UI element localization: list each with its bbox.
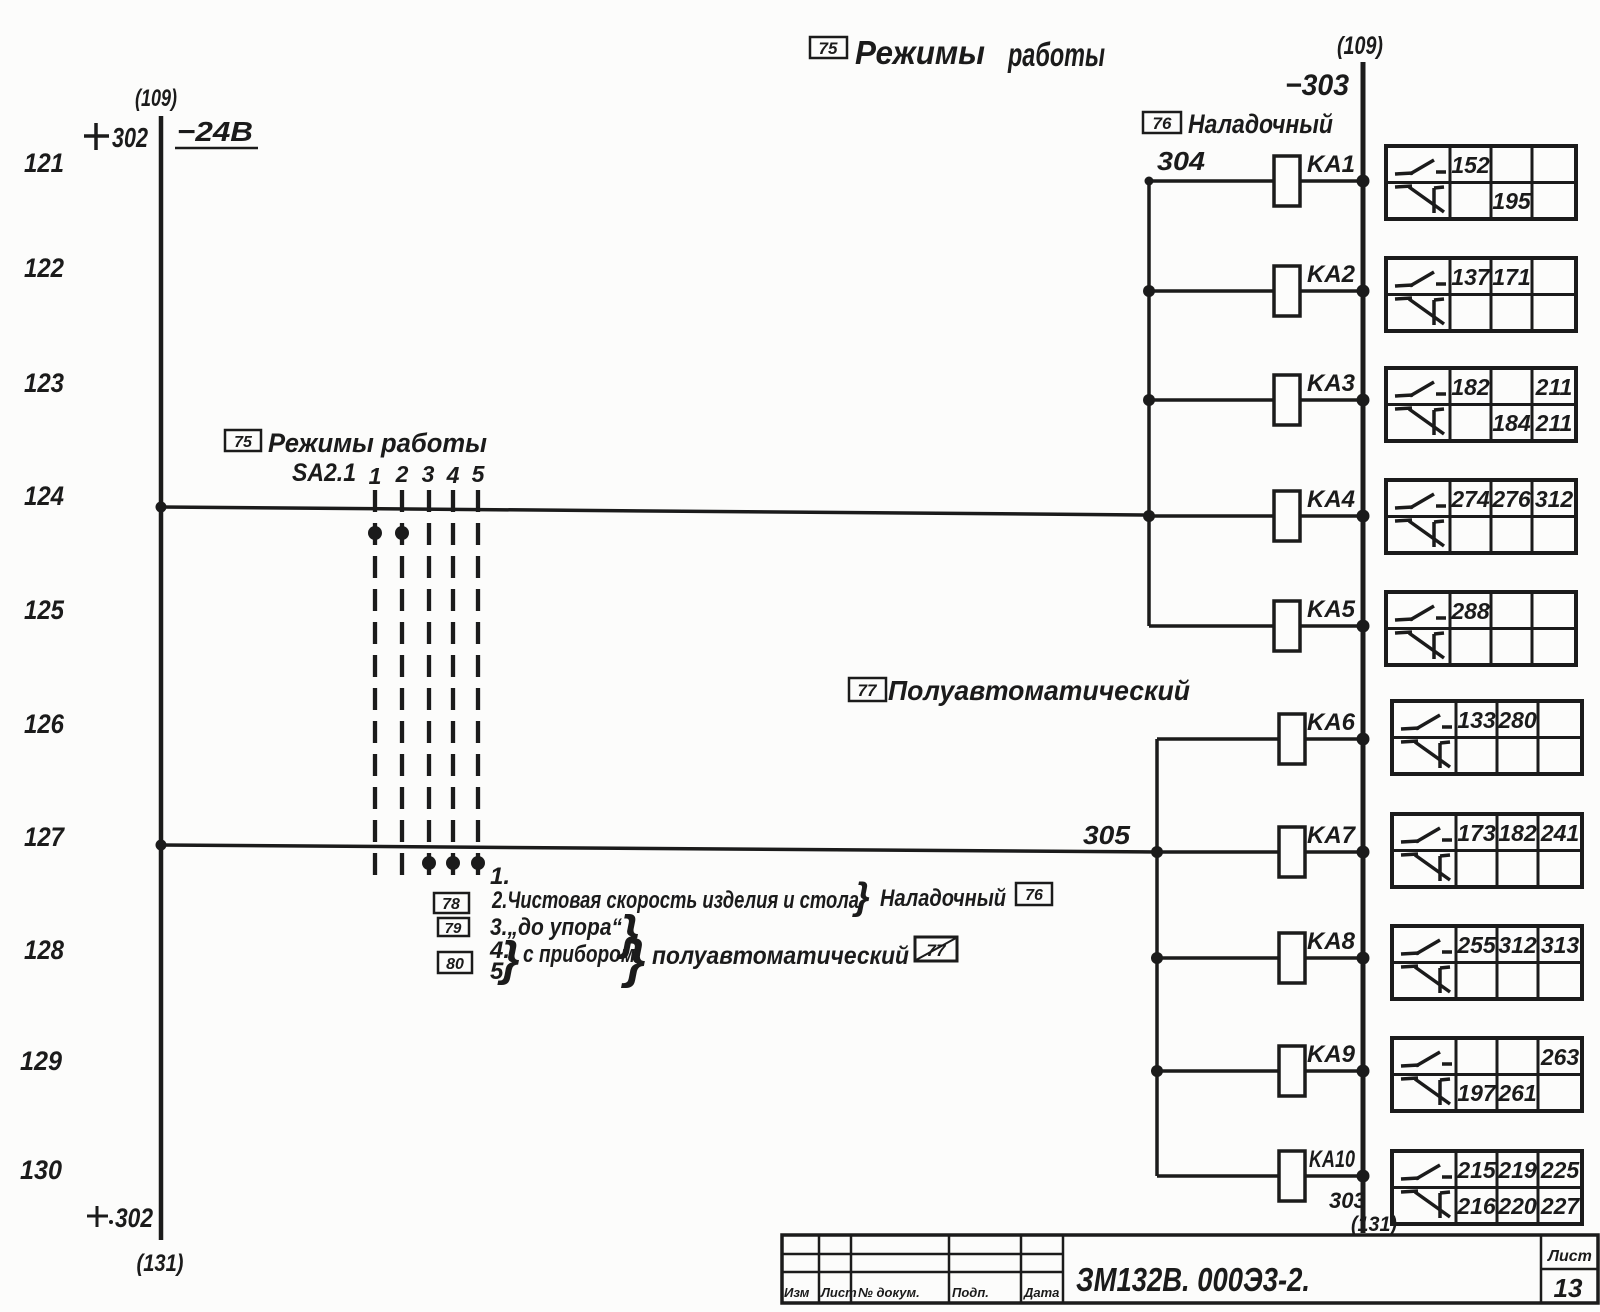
- svg-text:312: 312: [1535, 486, 1574, 512]
- svg-text:(131): (131): [137, 1250, 184, 1277]
- svg-text:303: 303: [1329, 1188, 1366, 1213]
- svg-text:76: 76: [1025, 887, 1043, 904]
- svg-text:215: 215: [1456, 1157, 1497, 1183]
- svg-text:Подп.: Подп.: [952, 1285, 989, 1300]
- svg-text:211: 211: [1535, 410, 1573, 436]
- svg-text:304: 304: [1157, 146, 1206, 176]
- underline of -24V: [175, 147, 258, 150]
- wire left bus +302: [159, 116, 164, 1240]
- contact table KA1: [1386, 146, 1576, 219]
- svg-text:263: 263: [1540, 1044, 1580, 1070]
- relay coil KA3: [1149, 370, 1363, 425]
- title row labels: [784, 1285, 1059, 1300]
- contact dot pole5: [471, 856, 485, 870]
- svg-text:KA10: KA10: [1309, 1146, 1355, 1173]
- svg-text:78: 78: [442, 896, 460, 913]
- label box 77 Poluavtomaticheskiy: [849, 675, 1190, 706]
- svg-text:KA8: KA8: [1307, 928, 1356, 955]
- svg-text:276: 276: [1491, 486, 1531, 512]
- switch pole 3 dashed: [427, 490, 431, 882]
- LEGEND: [434, 863, 1052, 989]
- svg-text:255: 255: [1456, 932, 1497, 958]
- svg-text:129: 129: [20, 1046, 62, 1076]
- relay coil KA9: [1157, 1041, 1363, 1096]
- label box 80: [438, 952, 472, 973]
- svg-text:KA3: KA3: [1307, 370, 1356, 397]
- junction branch upper y400: [1143, 394, 1155, 406]
- node +302 bottom: [87, 1215, 108, 1218]
- junction right bus KA9: [1357, 1065, 1370, 1078]
- svg-text:Наладочный: Наладочный: [1188, 109, 1333, 139]
- junction right bus KA1: [1357, 175, 1370, 188]
- contact table KA6: [1392, 701, 1582, 774]
- relay coil KA2: [1149, 261, 1363, 316]
- switch pole 5 dashed: [476, 490, 480, 882]
- svg-text:216: 216: [1456, 1193, 1496, 1219]
- junction right bus KA3: [1357, 394, 1370, 407]
- junction right bus KA2: [1357, 285, 1370, 298]
- junction branch lower y852: [1151, 846, 1163, 858]
- junction right bus KA10: [1357, 1170, 1370, 1183]
- contact table KA7: [1392, 814, 1582, 887]
- svg-text:305: 305: [1083, 820, 1131, 850]
- junction branch upper y516: [1143, 510, 1155, 522]
- svg-text:полуавтоматический: полуавтоматический: [652, 942, 909, 970]
- contact table KA10: [1392, 1151, 1582, 1224]
- label box 75 mid: [225, 430, 261, 451]
- contact dot pole4: [446, 856, 460, 870]
- contact table KA2: [1386, 258, 1576, 331]
- svg-text:№ докум.: № докум.: [858, 1285, 920, 1300]
- wire line124: [161, 507, 1149, 515]
- svg-text:13: 13: [1554, 1273, 1583, 1303]
- svg-text:1.: 1.: [490, 863, 510, 890]
- switch pole 1 dashed: [373, 490, 377, 877]
- title block frame: [782, 1235, 1598, 1303]
- junction right bus KA4: [1357, 510, 1370, 523]
- switch pole 4 dashed: [451, 490, 455, 882]
- TITLE BLOCK: [782, 1235, 1598, 1303]
- label box 76 Naladochny: [1143, 109, 1333, 139]
- svg-text:KA9: KA9: [1307, 1041, 1356, 1068]
- junction branch lower y1071: [1151, 1065, 1163, 1077]
- label box 75 top: [810, 37, 847, 58]
- relay coil KA8: [1157, 928, 1363, 983]
- svg-text:Изм: Изм: [784, 1285, 810, 1300]
- svg-text:работы: работы: [1007, 36, 1105, 73]
- svg-text:−24В: −24В: [177, 116, 253, 147]
- RELAY COLUMN inserted by script: [1143, 146, 1582, 1224]
- svg-text:227: 227: [1540, 1193, 1581, 1219]
- svg-text:77: 77: [927, 941, 947, 960]
- svg-text:125: 125: [24, 595, 65, 625]
- LEFT BUS GROUP: [84, 85, 258, 1277]
- svg-text:с прибором: с прибором: [523, 941, 635, 968]
- svg-text:184: 184: [1492, 410, 1531, 436]
- svg-text:220: 220: [1497, 1193, 1537, 1219]
- svg-text:211: 211: [1535, 374, 1573, 400]
- svg-text:280: 280: [1497, 707, 1537, 733]
- svg-text:Полуавтоматический: Полуавтоматический: [888, 675, 1190, 706]
- label box 77 legend: [915, 937, 957, 961]
- svg-text:133: 133: [1457, 707, 1496, 733]
- svg-text:KA2: KA2: [1307, 261, 1356, 288]
- svg-text:302: 302: [112, 122, 148, 153]
- svg-text:2: 2: [395, 461, 409, 487]
- relay coil KA7: [1157, 822, 1363, 877]
- svg-text:127: 127: [24, 822, 66, 852]
- svg-text:4: 4: [446, 462, 460, 488]
- contact table KA5: [1386, 592, 1576, 665]
- node +302 top: [84, 134, 109, 138]
- label box 76 legend: [1016, 883, 1052, 905]
- svg-text:KA6: KA6: [1307, 709, 1356, 736]
- svg-text:Лист: Лист: [1547, 1248, 1592, 1265]
- junction right bus KA6: [1357, 733, 1370, 746]
- svg-text:182: 182: [1498, 820, 1537, 846]
- svg-text:(109): (109): [135, 85, 177, 112]
- wire right bus -303: [1361, 62, 1366, 1233]
- label box 78: [434, 893, 469, 913]
- svg-text:75: 75: [234, 434, 253, 451]
- svg-text:Режимы работы: Режимы работы: [268, 428, 487, 458]
- svg-text:123: 123: [24, 368, 64, 398]
- svg-text:80: 80: [446, 956, 464, 973]
- svg-text:182: 182: [1451, 374, 1490, 400]
- contact dot pole2: [395, 526, 409, 540]
- svg-text:173: 173: [1457, 820, 1496, 846]
- contact table KA9: [1392, 1038, 1582, 1111]
- contact dot pole1: [368, 526, 382, 540]
- RIGHT BUS GROUP: [1285, 32, 1397, 1236]
- svg-text:KA7: KA7: [1307, 822, 1357, 849]
- svg-text:274: 274: [1450, 486, 1490, 512]
- svg-text:197: 197: [1457, 1080, 1497, 1106]
- TOP HEADER: [810, 34, 1105, 73]
- junction branch upper top: [1145, 177, 1154, 186]
- relay coil KA1: [1149, 151, 1363, 206]
- wire line127: [161, 845, 1157, 852]
- junction left bus line124: [156, 502, 167, 513]
- contact dot pole3: [422, 856, 436, 870]
- svg-text:225: 225: [1540, 1157, 1581, 1183]
- label box 79: [438, 918, 469, 936]
- junction branch lower y958: [1151, 952, 1163, 964]
- relay coil KA5: [1149, 596, 1363, 651]
- contact table KA4: [1386, 480, 1576, 553]
- svg-text:312: 312: [1498, 932, 1537, 958]
- wire branch bus upper 304: [1147, 181, 1151, 626]
- switch pole 2 dashed: [400, 490, 404, 877]
- svg-text:124: 124: [24, 481, 64, 511]
- svg-text:122: 122: [24, 253, 64, 283]
- junction right bus KA8: [1357, 952, 1370, 965]
- svg-text:261: 261: [1497, 1080, 1536, 1106]
- junction right bus KA5: [1357, 620, 1370, 633]
- svg-text:77: 77: [858, 681, 878, 700]
- svg-text:137: 137: [1451, 264, 1491, 290]
- LINE NUMBERS: [20, 148, 66, 1185]
- junction right bus KA7: [1357, 846, 1370, 859]
- svg-text:121: 121: [24, 148, 64, 178]
- wire branch bus lower 305: [1155, 739, 1159, 1176]
- junction left bus line127: [156, 840, 167, 851]
- svg-text:Дата: Дата: [1023, 1285, 1059, 1300]
- svg-text:130: 130: [20, 1155, 62, 1185]
- svg-text:5: 5: [472, 461, 486, 487]
- svg-text:}: }: [497, 933, 520, 986]
- junction branch upper y291: [1143, 285, 1155, 297]
- svg-text:ЗМ132В. 000Э3-2.: ЗМ132В. 000Э3-2.: [1076, 1261, 1310, 1298]
- relay coil KA6: [1157, 709, 1363, 764]
- svg-text:126: 126: [24, 709, 65, 739]
- svg-text:}: }: [852, 876, 870, 918]
- svg-text:KA5: KA5: [1307, 596, 1356, 623]
- svg-text:(109): (109): [1337, 32, 1383, 60]
- svg-text:288: 288: [1450, 598, 1490, 624]
- svg-text:3: 3: [422, 461, 435, 487]
- svg-text:195: 195: [1492, 188, 1532, 214]
- relay coil KA10: [1157, 1146, 1363, 1201]
- svg-text:2.Чистовая скорость изделия и: 2.Чистовая скорость изделия и стола: [491, 887, 859, 914]
- svg-text:KA4: KA4: [1307, 486, 1355, 513]
- svg-text:152: 152: [1451, 152, 1490, 178]
- svg-text:SA2.1: SA2.1: [292, 459, 356, 487]
- svg-text:79: 79: [445, 920, 462, 937]
- contact table KA3: [1386, 368, 1576, 441]
- svg-text:Наладочный: Наладочный: [880, 885, 1006, 912]
- svg-text:128: 128: [24, 935, 64, 965]
- contact table KA8: [1392, 926, 1582, 999]
- svg-text:1: 1: [369, 463, 382, 489]
- svg-text:219: 219: [1497, 1157, 1537, 1183]
- svg-text:241: 241: [1540, 820, 1579, 846]
- svg-text:171: 171: [1492, 264, 1530, 290]
- svg-text:−303: −303: [1285, 69, 1349, 102]
- svg-text:302: 302: [115, 1203, 153, 1233]
- svg-text:KA1: KA1: [1307, 151, 1355, 178]
- svg-text:Режимы: Режимы: [855, 34, 985, 71]
- relay coil KA4: [1149, 486, 1363, 541]
- svg-text:75: 75: [819, 39, 838, 58]
- svg-text:313: 313: [1541, 932, 1580, 958]
- svg-text:Лист: Лист: [820, 1285, 857, 1300]
- svg-text:76: 76: [1153, 114, 1172, 133]
- SWITCH SA2.1: [225, 428, 487, 882]
